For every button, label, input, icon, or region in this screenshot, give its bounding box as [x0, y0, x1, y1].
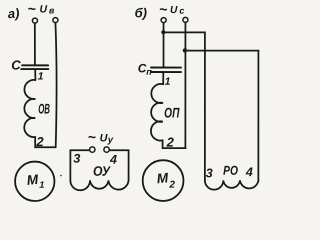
- speck: [60, 175, 62, 177]
- svg-text:4: 4: [109, 153, 117, 167]
- svg-text:с: с: [179, 6, 184, 16]
- svg-text:2: 2: [166, 135, 175, 150]
- label Cp: [138, 61, 153, 77]
- junction dot on left wire: [161, 30, 165, 34]
- svg-text:2: 2: [168, 180, 175, 191]
- terminal circle right of source Uv: [53, 18, 58, 23]
- svg-text:М: М: [156, 170, 169, 186]
- terminal circle right of source Uc: [183, 17, 188, 22]
- wire: junction to RO winding left wall: [163, 32, 204, 180]
- capacitor Cp plates: [151, 68, 181, 73]
- svg-text:п: п: [146, 67, 152, 77]
- svg-text:РО: РО: [223, 163, 238, 178]
- svg-text:~: ~: [88, 129, 96, 145]
- svg-text:б): б): [135, 5, 147, 20]
- wire: left terminal down to capacitor C: [34, 23, 36, 64]
- terminal circle left of source Uv: [32, 18, 37, 23]
- source ~Uu label: [88, 129, 114, 146]
- winding OV coil (3 left arcs): [24, 80, 35, 137]
- svg-text:1: 1: [165, 76, 171, 88]
- svg-text:М: М: [26, 172, 39, 188]
- wire: coil bottom to node 2 and across (fig b): [163, 140, 186, 148]
- source ~Uc label: [159, 1, 184, 17]
- wire: left terminal down to capacitor Cp: [163, 23, 165, 67]
- motor M2 circle: [143, 160, 184, 201]
- svg-text:3: 3: [206, 166, 213, 180]
- svg-text:1: 1: [38, 71, 44, 83]
- svg-text:2: 2: [35, 134, 44, 149]
- svg-text:ОП: ОП: [164, 105, 180, 121]
- wire: right terminal down to node 2: [55, 23, 56, 148]
- terminal circle left of source Uc: [161, 18, 166, 23]
- junction dot on right wire: [183, 48, 187, 52]
- terminal 4 circle (fig a): [104, 147, 109, 152]
- svg-text:у: у: [107, 135, 114, 146]
- wire: capacitor to winding OV top: [34, 70, 36, 80]
- svg-text:3: 3: [73, 152, 80, 166]
- motor M2 label: [156, 170, 175, 190]
- svg-text:U: U: [40, 4, 48, 16]
- wire: coil bottom to node 2 and across: [35, 137, 56, 147]
- svg-text:1: 1: [39, 180, 44, 190]
- wire: terminal 4 to winding OU right wall: [109, 150, 128, 180]
- svg-text:~: ~: [28, 0, 36, 16]
- capacitor C plates: [21, 65, 48, 69]
- svg-text:а): а): [7, 5, 20, 21]
- svg-text:4: 4: [245, 165, 253, 179]
- motor M1 circle: [15, 162, 54, 201]
- svg-text:ОУ: ОУ: [93, 164, 112, 179]
- wire: right terminal down to node 2 (fig b): [184, 22, 186, 148]
- source ~Uv label: [28, 0, 55, 16]
- winding OP coil (3 left arcs): [151, 84, 163, 141]
- wire: capacitor Cp to winding OP: [162, 72, 164, 84]
- svg-text:~: ~: [159, 1, 167, 17]
- wire: junction to RO winding right wall: [185, 51, 258, 181]
- svg-text:в: в: [49, 5, 55, 15]
- motor M1 label: [26, 172, 44, 190]
- winding RO coil (3 bottom scallops): [205, 180, 259, 189]
- wire: terminal 3 to winding OU left wall: [70, 150, 89, 180]
- svg-text:ОВ: ОВ: [38, 101, 50, 117]
- svg-text:U: U: [170, 5, 178, 16]
- svg-text:C: C: [11, 58, 21, 73]
- winding OU coil (3 bottom scallops): [70, 180, 128, 190]
- terminal 3 circle (fig a): [90, 147, 95, 152]
